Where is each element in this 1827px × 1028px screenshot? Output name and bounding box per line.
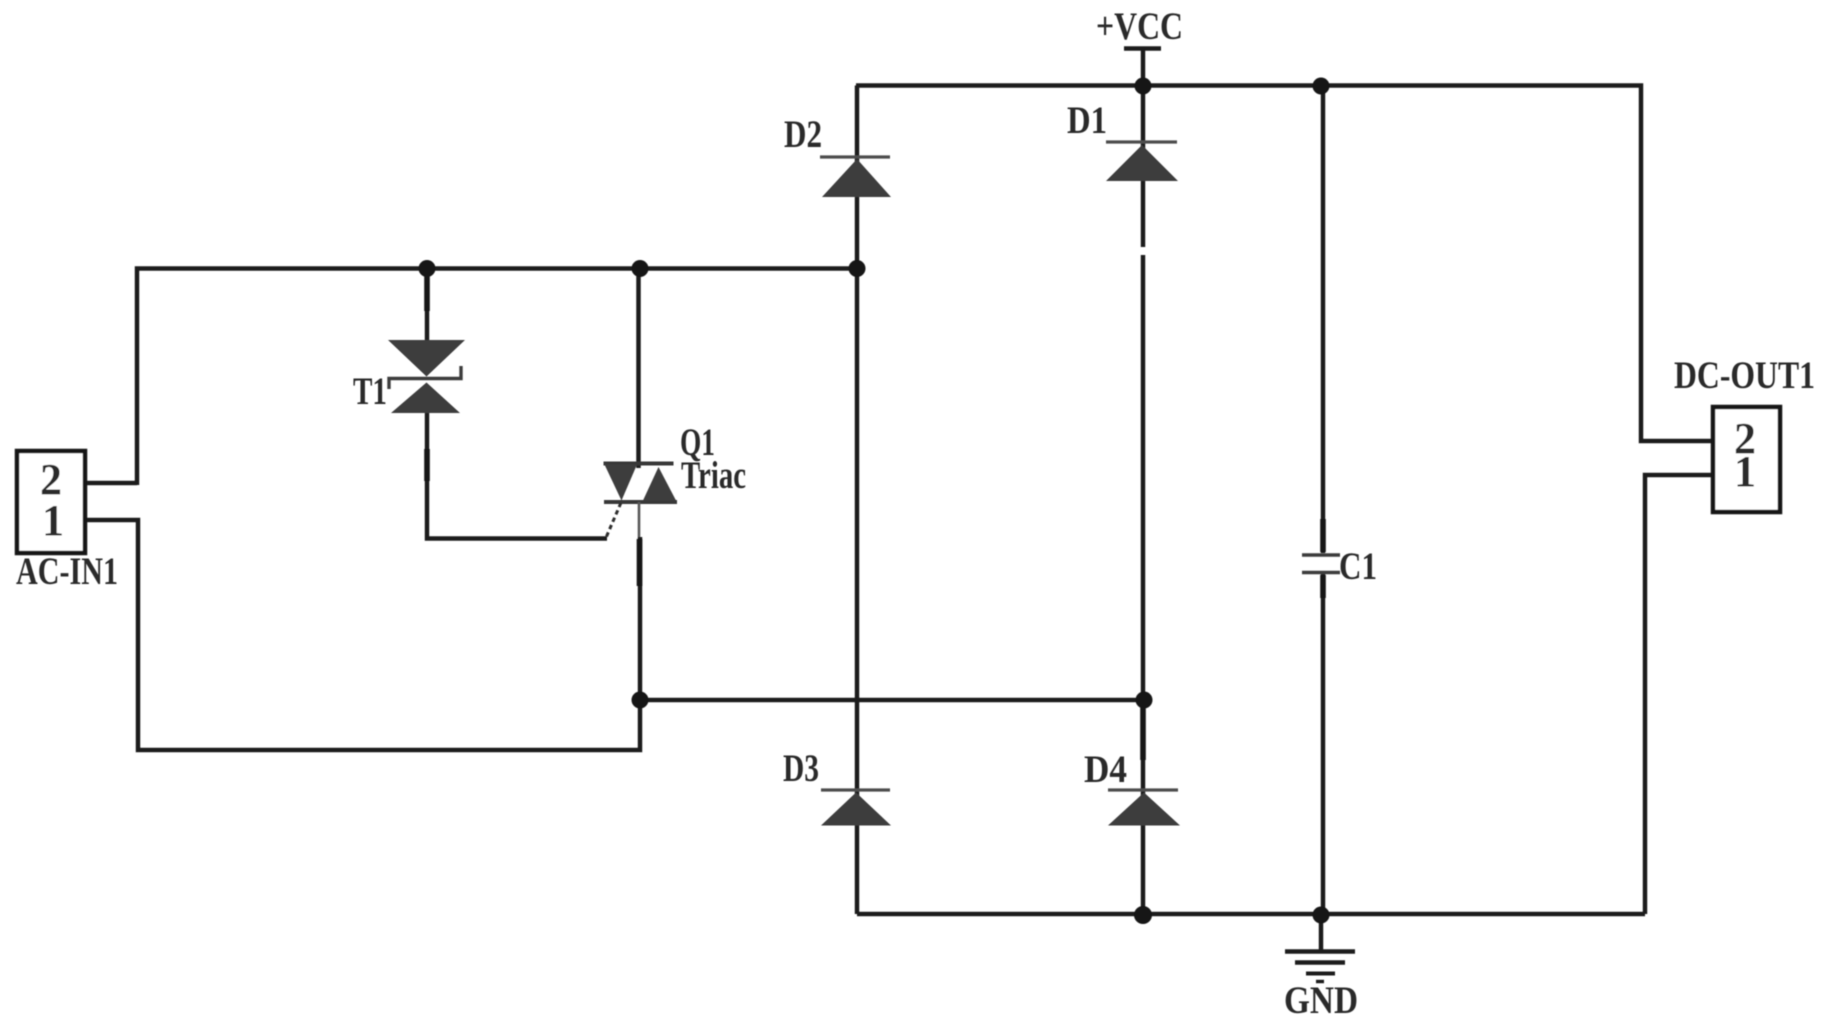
svg-text:D2: D2 <box>784 113 822 156</box>
svg-text:T1: T1 <box>353 370 387 413</box>
svg-text:AC-IN1: AC-IN1 <box>16 550 118 593</box>
svg-text:D3: D3 <box>783 747 819 790</box>
svg-text:D1: D1 <box>1067 99 1107 142</box>
svg-text:DC-OUT1: DC-OUT1 <box>1674 354 1815 397</box>
svg-text:GND: GND <box>1284 979 1358 1022</box>
svg-text:+VCC: +VCC <box>1096 5 1183 48</box>
svg-text:C1: C1 <box>1339 545 1377 588</box>
svg-text:1: 1 <box>42 496 64 545</box>
svg-text:Triac: Triac <box>681 454 746 497</box>
svg-text:D4: D4 <box>1084 748 1127 791</box>
svg-text:1: 1 <box>1734 447 1756 496</box>
